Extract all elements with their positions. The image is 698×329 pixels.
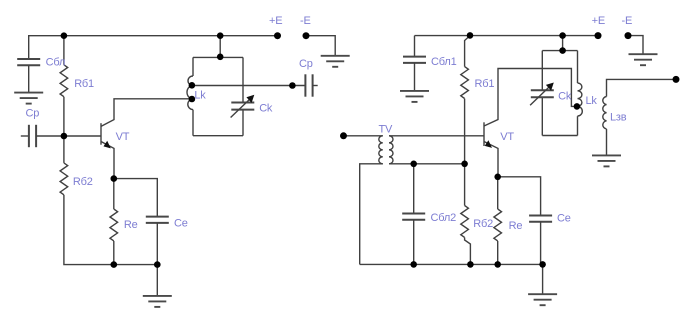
svg-text:Re: Re [124,219,138,231]
svg-text:Ck: Ck [259,103,273,115]
svg-text:Ck: Ck [558,91,572,103]
svg-text:Cp: Cp [26,107,40,119]
svg-text:Lзв: Lзв [610,112,627,124]
svg-text:Ce: Ce [557,212,571,224]
svg-text:Ce: Ce [174,217,188,229]
svg-text:-E: -E [300,15,311,27]
svg-text:Lk: Lk [194,90,206,102]
svg-text:Rб1: Rб1 [74,78,94,90]
svg-text:Rб2: Rб2 [473,218,493,230]
svg-text:Rб2: Rб2 [73,176,93,188]
svg-text:VT: VT [116,131,130,143]
svg-text:+E: +E [592,15,605,27]
svg-text:-E: -E [622,15,633,27]
svg-text:VT: VT [500,131,514,143]
svg-text:Сбл: Сбл [46,56,66,68]
svg-text:TV: TV [379,124,394,136]
svg-text:Сбл2: Сбл2 [431,212,457,224]
svg-text:Lk: Lk [586,95,598,107]
svg-text:Сбл1: Сбл1 [431,56,457,68]
svg-text:+E: +E [269,15,282,27]
svg-text:Re: Re [509,220,523,232]
svg-text:Cp: Cp [299,58,313,70]
svg-text:Rб1: Rб1 [475,78,495,90]
